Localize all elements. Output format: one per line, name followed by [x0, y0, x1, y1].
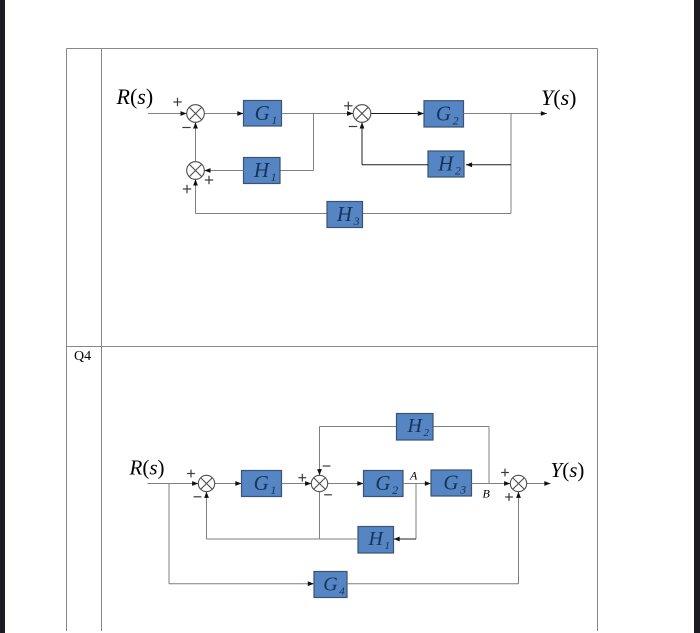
- svg-text:R(s): R(s): [116, 84, 154, 109]
- svg-text:B: B: [483, 487, 491, 501]
- svg-text:R(s): R(s): [129, 456, 165, 480]
- svg-text:Y(s): Y(s): [551, 458, 585, 482]
- svg-text:A: A: [409, 469, 418, 483]
- svg-text:Q4: Q4: [74, 349, 91, 364]
- svg-text:Y(s): Y(s): [541, 85, 576, 110]
